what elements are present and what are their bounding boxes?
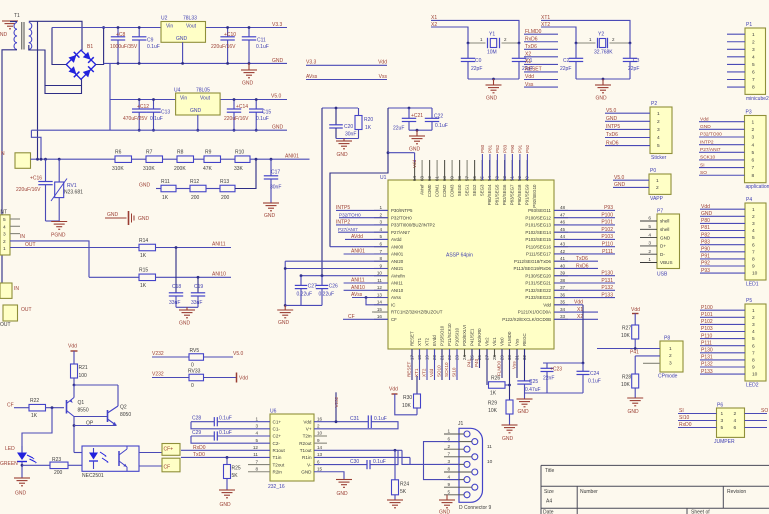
svg-text:14: 14 xyxy=(317,445,323,450)
ground (J1) xyxy=(439,499,455,501)
svg-text:6: 6 xyxy=(734,425,737,431)
svg-text:P6: P6 xyxy=(717,403,723,409)
svg-text:X1: X1 xyxy=(577,307,583,313)
svg-text:GND: GND xyxy=(242,81,254,87)
resistor R25 xyxy=(226,457,228,464)
resistor R29 xyxy=(506,400,513,414)
svg-text:C9: C9 xyxy=(147,38,154,44)
wire R15 feed xyxy=(89,276,139,278)
svg-text:5: 5 xyxy=(752,336,755,342)
svg-text:220uF/16V: 220uF/16V xyxy=(224,116,249,122)
svg-text:13: 13 xyxy=(377,292,383,297)
svg-text:R1out: R1out xyxy=(273,448,286,453)
svg-text:44: 44 xyxy=(560,234,566,239)
svg-text:T1out: T1out xyxy=(300,448,312,453)
svg-text:200: 200 xyxy=(54,470,63,476)
svg-text:P11/SCK10: P11/SCK10 xyxy=(447,323,452,346)
svg-text:11: 11 xyxy=(253,452,258,457)
svg-text:62: 62 xyxy=(427,176,432,182)
svg-text:3: 3 xyxy=(752,135,755,141)
svg-text:220uF/16V: 220uF/16V xyxy=(16,187,41,193)
svg-text:Vdd: Vdd xyxy=(631,307,640,313)
resistor R13 xyxy=(220,185,235,192)
svg-text:R1in: R1in xyxy=(302,455,312,460)
svg-text:R8: R8 xyxy=(177,150,184,156)
svg-text:P122/X2/EXCLK/OCD0B: P122/X2/EXCLK/OCD0B xyxy=(502,317,551,322)
svg-text:R9: R9 xyxy=(205,150,212,156)
svg-text:Vout: Vout xyxy=(186,24,197,30)
resistor R9 xyxy=(204,156,221,163)
svg-text:10K: 10K xyxy=(402,403,412,409)
svg-text:232_16: 232_16 xyxy=(268,484,285,490)
svg-text:9: 9 xyxy=(379,263,382,268)
svg-text:V232: V232 xyxy=(152,372,164,378)
svg-text:Vdd: Vdd xyxy=(543,302,551,307)
svg-text:C18: C18 xyxy=(172,284,181,290)
svg-text:22nF: 22nF xyxy=(543,376,554,382)
svg-text:Sticker: Sticker xyxy=(651,155,667,161)
wire LED to R23 xyxy=(22,464,50,466)
svg-text:P82/SEG6: P82/SEG6 xyxy=(502,184,507,205)
ground (R25) xyxy=(219,489,235,491)
svg-text:4: 4 xyxy=(657,135,660,141)
svg-text:P92/SEG10: P92/SEG10 xyxy=(532,184,537,208)
svg-text:10: 10 xyxy=(377,271,383,276)
ground (C18 C19) xyxy=(176,306,198,308)
svg-text:39: 39 xyxy=(560,271,566,276)
svg-text:34: 34 xyxy=(560,307,566,312)
svg-text:220uF/16V: 220uF/16V xyxy=(211,44,236,50)
svg-text:2: 2 xyxy=(752,214,755,220)
svg-text:R30: R30 xyxy=(403,395,412,401)
svg-text:3: 3 xyxy=(721,418,724,424)
svg-text:0.1uF: 0.1uF xyxy=(219,430,232,436)
svg-text:13: 13 xyxy=(317,452,323,457)
svg-text:V5.0: V5.0 xyxy=(271,94,282,100)
svg-text:6: 6 xyxy=(752,158,755,164)
wire N drop from secondary-top xyxy=(37,21,39,159)
svg-text:C3: C3 xyxy=(633,58,640,64)
svg-text:GND: GND xyxy=(278,320,290,326)
svg-text:P91/SEG9: P91/SEG9 xyxy=(525,184,530,205)
svg-text:P40/KR0: P40/KR0 xyxy=(477,328,482,346)
svg-text:Vss: Vss xyxy=(512,361,517,369)
svg-text:4: 4 xyxy=(752,142,755,148)
svg-text:8: 8 xyxy=(752,257,755,263)
wire right port nets xyxy=(554,209,615,211)
svg-text:IN: IN xyxy=(14,286,19,292)
mcu U1 pin stubs bottom xyxy=(411,349,413,357)
wire ANI00 xyxy=(330,246,388,248)
ground PGND xyxy=(46,220,60,222)
svg-text:minicube2: minicube2 xyxy=(746,96,769,102)
wire primary-top to earth xyxy=(10,21,17,23)
svg-text:7: 7 xyxy=(752,249,755,255)
wire T2out R2in stubs xyxy=(248,464,270,466)
svg-text:32.768K: 32.768K xyxy=(594,50,613,56)
svg-text:Vdd: Vdd xyxy=(303,419,312,424)
svg-text:30nF: 30nF xyxy=(270,185,281,191)
svg-text:2: 2 xyxy=(447,444,450,449)
svg-text:C27: C27 xyxy=(308,283,317,289)
svg-text:ANI10: ANI10 xyxy=(212,271,226,277)
capacitor C24 xyxy=(582,363,584,371)
svg-text:200K: 200K xyxy=(174,166,186,172)
svg-text:470uF/25V: 470uF/25V xyxy=(123,116,148,122)
svg-text:RESET: RESET xyxy=(407,361,412,377)
wire pin64 up segment xyxy=(414,153,416,162)
svg-text:5: 5 xyxy=(752,235,755,241)
node ANI01 xyxy=(250,158,310,160)
svg-text:1: 1 xyxy=(447,429,450,434)
resistor R12 xyxy=(190,185,206,192)
svg-text:P133: P133 xyxy=(601,292,613,298)
svg-text:P103: P103 xyxy=(601,234,613,240)
svg-text:R20: R20 xyxy=(364,117,373,123)
svg-text:N: N xyxy=(1,151,5,157)
svg-text:P101: P101 xyxy=(601,220,613,226)
svg-text:100: 100 xyxy=(79,373,88,379)
svg-text:AVrefin: AVrefin xyxy=(391,273,405,278)
svg-text:3: 3 xyxy=(752,221,755,227)
svg-text:5K: 5K xyxy=(232,473,239,479)
svg-text:3: 3 xyxy=(657,127,660,133)
svg-text:6: 6 xyxy=(447,436,450,441)
connector P5 LED2 xyxy=(745,304,766,381)
svg-text:P83/SEG7: P83/SEG7 xyxy=(510,184,515,205)
connector P2 Sticker xyxy=(650,107,672,154)
svg-text:U4: U4 xyxy=(174,88,181,94)
svg-text:1: 1 xyxy=(255,416,258,421)
wire U2 gnd stem xyxy=(182,42,184,63)
wire U6 gnd xyxy=(314,472,344,480)
svg-text:C1-: C1- xyxy=(273,427,281,432)
svg-text:R14: R14 xyxy=(139,238,148,244)
svg-text:1: 1 xyxy=(379,205,382,210)
svg-text:2: 2 xyxy=(669,353,672,359)
svg-text:GND: GND xyxy=(337,152,349,158)
svg-text:1: 1 xyxy=(669,346,672,352)
svg-text:T1in: T1in xyxy=(273,455,282,460)
svg-text:R25: R25 xyxy=(232,466,241,472)
wire J1 pin3 feed xyxy=(402,450,459,464)
svg-text:1: 1 xyxy=(752,32,755,38)
svg-text:A4: A4 xyxy=(546,499,552,505)
svg-text:+C10: +C10 xyxy=(224,32,236,38)
svg-text:IN: IN xyxy=(20,234,25,240)
svg-text:C26: C26 xyxy=(329,283,338,289)
wire bridge-left to top rail xyxy=(52,28,66,65)
wire gnd drop xyxy=(284,261,286,305)
svg-text:4: 4 xyxy=(3,224,6,230)
svg-text:R11: R11 xyxy=(161,179,170,185)
svg-text:5: 5 xyxy=(3,217,6,223)
svg-text:+C8: +C8 xyxy=(116,32,126,38)
svg-text:Vdd: Vdd xyxy=(389,387,398,393)
wire ANI20 (pin8) xyxy=(285,260,388,262)
wire pin32 drop xyxy=(524,349,526,381)
ground (Y1) xyxy=(486,84,502,86)
connector P7 USB xyxy=(657,214,680,269)
svg-text:P133/SEG23: P133/SEG23 xyxy=(525,295,551,300)
mcu U1 pin stubs right xyxy=(554,318,568,320)
svg-text:R21: R21 xyxy=(79,365,88,371)
svg-text:1: 1 xyxy=(657,111,660,117)
svg-text:Revision: Revision xyxy=(727,489,746,495)
svg-text:V3.3: V3.3 xyxy=(306,60,317,66)
svg-text:C13: C13 xyxy=(161,110,170,116)
svg-text:C1+: C1+ xyxy=(273,419,282,424)
capacitor C25 xyxy=(517,380,531,382)
svg-text:33K: 33K xyxy=(234,166,244,172)
svg-text:P131/SEG21: P131/SEG21 xyxy=(525,281,551,286)
svg-text:3: 3 xyxy=(669,361,672,367)
svg-text:2: 2 xyxy=(657,119,660,125)
svg-text:ASSP 64pin: ASSP 64pin xyxy=(446,253,473,259)
svg-text:7: 7 xyxy=(752,77,755,83)
svg-text:T1: T1 xyxy=(14,13,20,19)
wire T1out to J1 xyxy=(314,449,402,451)
svg-text:V+: V+ xyxy=(306,427,312,432)
wire ANI10 xyxy=(156,276,232,278)
svg-text:P110: P110 xyxy=(602,242,614,248)
svg-text:P32/TOH0: P32/TOH0 xyxy=(391,215,412,220)
svg-text:shell: shell xyxy=(660,227,669,232)
svg-text:1: 1 xyxy=(752,119,755,125)
resistor R30 pull-up xyxy=(416,376,418,394)
svg-text:43: 43 xyxy=(560,242,566,247)
svg-text:0.47uF: 0.47uF xyxy=(525,387,541,393)
svg-text:P111: P111 xyxy=(602,249,613,255)
wire V5 input rail xyxy=(109,63,111,130)
net X1 (pin34) xyxy=(554,311,598,313)
power Vdd (RV33) xyxy=(236,373,238,383)
resistor R27 xyxy=(632,325,639,339)
net X2 (pin33) xyxy=(554,318,598,320)
svg-text:RTC1HZ/32KHZ/BUZOUT: RTC1HZ/32KHZ/BUZOUT xyxy=(391,310,443,315)
capacitor C3 xyxy=(629,43,631,58)
wire GND rail lower xyxy=(31,129,287,131)
svg-text:6: 6 xyxy=(752,343,755,349)
svg-text:P27/ANI7: P27/ANI7 xyxy=(391,230,410,235)
svg-text:P110/SEG16: P110/SEG16 xyxy=(526,244,552,249)
svg-text:OP: OP xyxy=(86,420,94,426)
ground (upper rail) xyxy=(248,63,250,70)
svg-text:3: 3 xyxy=(752,322,755,328)
svg-text:C11: C11 xyxy=(257,38,266,44)
svg-text:FLMD0: FLMD0 xyxy=(507,331,512,346)
svg-text:8550: 8550 xyxy=(78,408,89,414)
svg-text:SEG2: SEG2 xyxy=(472,184,477,196)
capacitor C8 xyxy=(117,28,119,37)
svg-text:9: 9 xyxy=(317,438,320,443)
wire Y1 gnd bus xyxy=(468,78,519,80)
svg-text:XT1: XT1 xyxy=(414,368,419,377)
svg-text:C31: C31 xyxy=(350,416,359,422)
svg-text:8: 8 xyxy=(255,466,258,471)
svg-text:7: 7 xyxy=(379,249,382,254)
svg-text:1K: 1K xyxy=(490,391,497,397)
svg-text:0.1uF: 0.1uF xyxy=(374,416,387,422)
svg-text:GND: GND xyxy=(660,235,671,240)
svg-text:9: 9 xyxy=(752,264,755,270)
svg-text:R27: R27 xyxy=(622,326,631,332)
svg-text:GND: GND xyxy=(15,491,27,497)
svg-text:COM0: COM0 xyxy=(427,184,432,197)
svg-text:P113/SEG19/RxD6: P113/SEG19/RxD6 xyxy=(513,266,551,271)
svg-text:37: 37 xyxy=(560,285,566,290)
svg-text:P102: P102 xyxy=(601,227,613,233)
svg-text:GND: GND xyxy=(264,213,276,219)
wire C21 C22 top xyxy=(388,107,432,109)
wire Vdd drop (pin20) xyxy=(434,349,436,380)
wire Q2 emitter return xyxy=(74,425,117,427)
svg-text:200: 200 xyxy=(191,195,200,201)
wire J1 pin5 gnd xyxy=(446,495,448,500)
svg-text:2: 2 xyxy=(3,239,6,245)
connector CF+ xyxy=(162,444,180,456)
wire T2in R2out stubs xyxy=(314,435,327,437)
wire P41 drop (pin25) xyxy=(471,349,473,368)
svg-text:0.1uF: 0.1uF xyxy=(256,116,269,122)
svg-text:P111/SEG17: P111/SEG17 xyxy=(526,252,552,257)
svg-text:OUT: OUT xyxy=(21,307,32,313)
svg-text:0.1uF: 0.1uF xyxy=(373,459,386,465)
svg-text:D Connector 9: D Connector 9 xyxy=(459,505,491,511)
svg-text:P8: P8 xyxy=(664,336,670,342)
svg-text:COM3: COM3 xyxy=(450,184,455,197)
svg-text:B1: B1 xyxy=(87,44,93,50)
svg-text:56: 56 xyxy=(472,176,477,182)
svg-text:IC: IC xyxy=(391,302,395,307)
ground (U6) xyxy=(336,479,352,481)
svg-text:10: 10 xyxy=(752,372,758,378)
svg-text:Vlc1: Vlc1 xyxy=(492,337,497,346)
ground (C20 R20) xyxy=(336,138,359,140)
svg-text:6: 6 xyxy=(317,459,320,464)
wire right port nets P13x xyxy=(554,275,615,277)
svg-text:15: 15 xyxy=(317,466,323,471)
svg-text:1000uF/35V: 1000uF/35V xyxy=(110,44,138,50)
svg-text:+C16: +C16 xyxy=(30,176,42,182)
svg-text:R23: R23 xyxy=(52,457,61,463)
svg-text:Vin: Vin xyxy=(180,96,187,102)
svg-text:10: 10 xyxy=(487,459,493,465)
svg-text:14: 14 xyxy=(377,300,383,305)
svg-text:RV33: RV33 xyxy=(188,369,201,375)
svg-text:PGND: PGND xyxy=(51,233,66,239)
svg-text:P100: P100 xyxy=(601,212,613,218)
svg-text:5: 5 xyxy=(721,425,724,431)
svg-text:4: 4 xyxy=(447,474,450,479)
svg-text:GND: GND xyxy=(486,96,498,102)
svg-text:GND: GND xyxy=(272,125,284,131)
wire top port nets P80-P92 xyxy=(481,154,483,180)
wire RESET drop (pin17) xyxy=(411,349,413,380)
svg-text:11: 11 xyxy=(487,444,492,450)
svg-text:Vss: Vss xyxy=(515,338,520,346)
svg-text:ANI20: ANI20 xyxy=(391,259,404,264)
capacitor C13 xyxy=(153,100,155,110)
svg-text:SEG0: SEG0 xyxy=(457,184,462,196)
svg-text:U2: U2 xyxy=(161,16,168,22)
svg-text:Vss: Vss xyxy=(379,74,388,80)
svg-text:38: 38 xyxy=(560,278,566,283)
svg-text:P33/TI000/BUZ/INTP2: P33/TI000/BUZ/INTP2 xyxy=(391,223,435,228)
svg-text:GND: GND xyxy=(0,32,8,38)
svg-text:P83: P83 xyxy=(503,144,508,153)
net TxD6 (pin41) xyxy=(554,260,598,262)
wire ANI21 (pin9) xyxy=(285,268,388,270)
svg-text:ANT: ANT xyxy=(0,210,7,216)
wire J1 pin6-pin4 tie xyxy=(424,442,460,480)
svg-text:36: 36 xyxy=(560,292,566,297)
wire ANI11 xyxy=(156,247,232,249)
resistor R6 xyxy=(115,156,132,163)
ground (C17) xyxy=(263,202,279,204)
capacitor C31 xyxy=(314,421,368,423)
wire bridge-right to rails xyxy=(96,28,104,65)
svg-text:0.1uF: 0.1uF xyxy=(588,379,601,385)
regulator U4 78L05 xyxy=(176,93,221,115)
svg-text:3: 3 xyxy=(752,47,755,53)
svg-text:47K: 47K xyxy=(203,166,213,172)
ground (C25) xyxy=(517,398,533,400)
svg-text:C15: C15 xyxy=(262,110,271,116)
net V232 (U6 Vdd) xyxy=(335,392,337,421)
svg-text:6: 6 xyxy=(752,242,755,248)
svg-text:4: 4 xyxy=(752,329,755,335)
net Vdd (pin35) xyxy=(554,304,583,306)
svg-text:1: 1 xyxy=(656,178,659,184)
resistor R8 xyxy=(177,156,194,163)
svg-text:AVdd: AVdd xyxy=(391,237,402,242)
svg-text:40: 40 xyxy=(560,263,566,268)
wire XT1 drop (pin18) xyxy=(419,349,421,380)
svg-text:V232: V232 xyxy=(152,351,164,357)
svg-text:42: 42 xyxy=(560,249,566,254)
svg-text:P80/SEG4: P80/SEG4 xyxy=(487,184,492,205)
svg-text:4: 4 xyxy=(752,228,755,234)
svg-text:9: 9 xyxy=(752,365,755,371)
svg-text:15: 15 xyxy=(377,307,383,312)
wire C23 C24 gnd bus xyxy=(525,392,584,394)
svg-text:10: 10 xyxy=(752,271,758,277)
svg-text:78L05: 78L05 xyxy=(196,88,210,94)
wire Vdd pin35 drop xyxy=(582,305,584,363)
transistor Q1 8550 xyxy=(66,400,68,414)
optocoupler NEC2501 xyxy=(82,446,139,471)
wire FLMD0 drop (pin29) xyxy=(501,349,503,378)
svg-text:LED1: LED1 xyxy=(746,282,759,288)
resistor R10 xyxy=(235,156,250,163)
svg-text:6: 6 xyxy=(379,242,382,247)
svg-text:C29: C29 xyxy=(192,430,201,436)
capacitor C28 xyxy=(191,421,214,423)
mcu U1 pin stubs left xyxy=(374,209,388,211)
svg-text:2: 2 xyxy=(317,424,320,429)
svg-text:C25: C25 xyxy=(529,379,538,385)
wire opto outputs xyxy=(139,452,162,454)
svg-text:P91: P91 xyxy=(518,144,523,153)
svg-text:1: 1 xyxy=(721,411,724,417)
svg-text:P90/SEG8: P90/SEG8 xyxy=(517,184,522,205)
ground (R28) xyxy=(627,397,643,399)
wire primary-bottom to left edge xyxy=(2,50,17,291)
svg-text:P92: P92 xyxy=(525,144,530,153)
svg-text:10K: 10K xyxy=(488,408,498,414)
svg-text:0.22uF: 0.22uF xyxy=(297,292,313,298)
